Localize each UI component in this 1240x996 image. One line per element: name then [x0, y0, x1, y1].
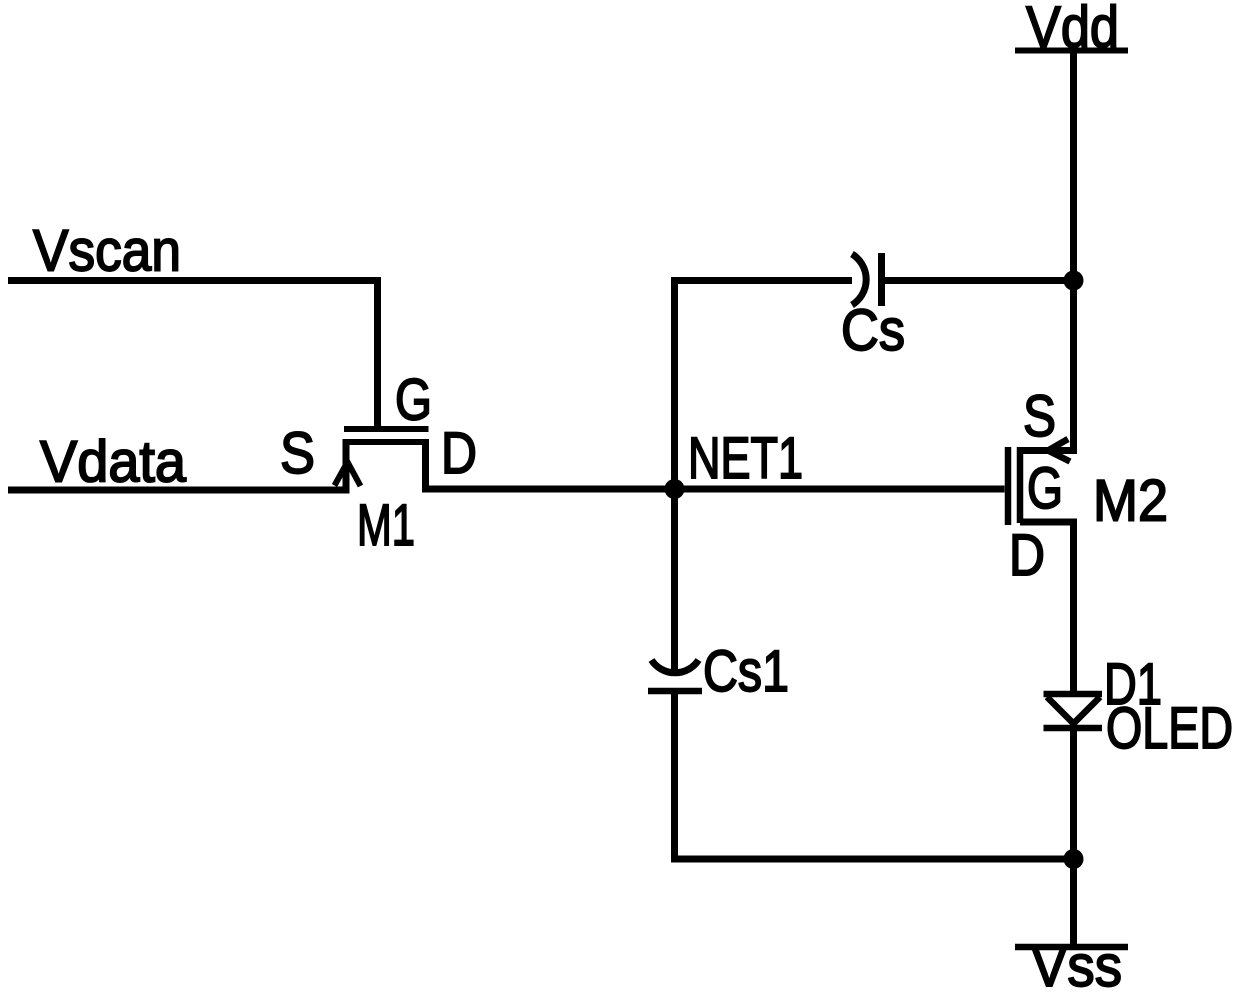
svg-text:G: G: [395, 368, 432, 433]
svg-text:Cs1: Cs1: [703, 639, 789, 704]
svg-text:Vss: Vss: [1031, 934, 1122, 996]
svg-text:S: S: [280, 421, 315, 486]
svg-text:NET1: NET1: [688, 426, 803, 491]
svg-text:Vdata: Vdata: [40, 430, 187, 495]
svg-text:G: G: [1027, 456, 1063, 521]
svg-text:S: S: [1023, 384, 1056, 449]
svg-text:M1: M1: [357, 493, 415, 558]
svg-text:OLED: OLED: [1106, 696, 1233, 761]
svg-text:Vscan: Vscan: [33, 219, 181, 284]
svg-text:Vdd: Vdd: [1026, 0, 1119, 60]
svg-text:M2: M2: [1093, 469, 1168, 534]
svg-text:D: D: [1009, 523, 1045, 588]
svg-text:D: D: [441, 421, 477, 486]
svg-text:Cs: Cs: [841, 298, 905, 363]
